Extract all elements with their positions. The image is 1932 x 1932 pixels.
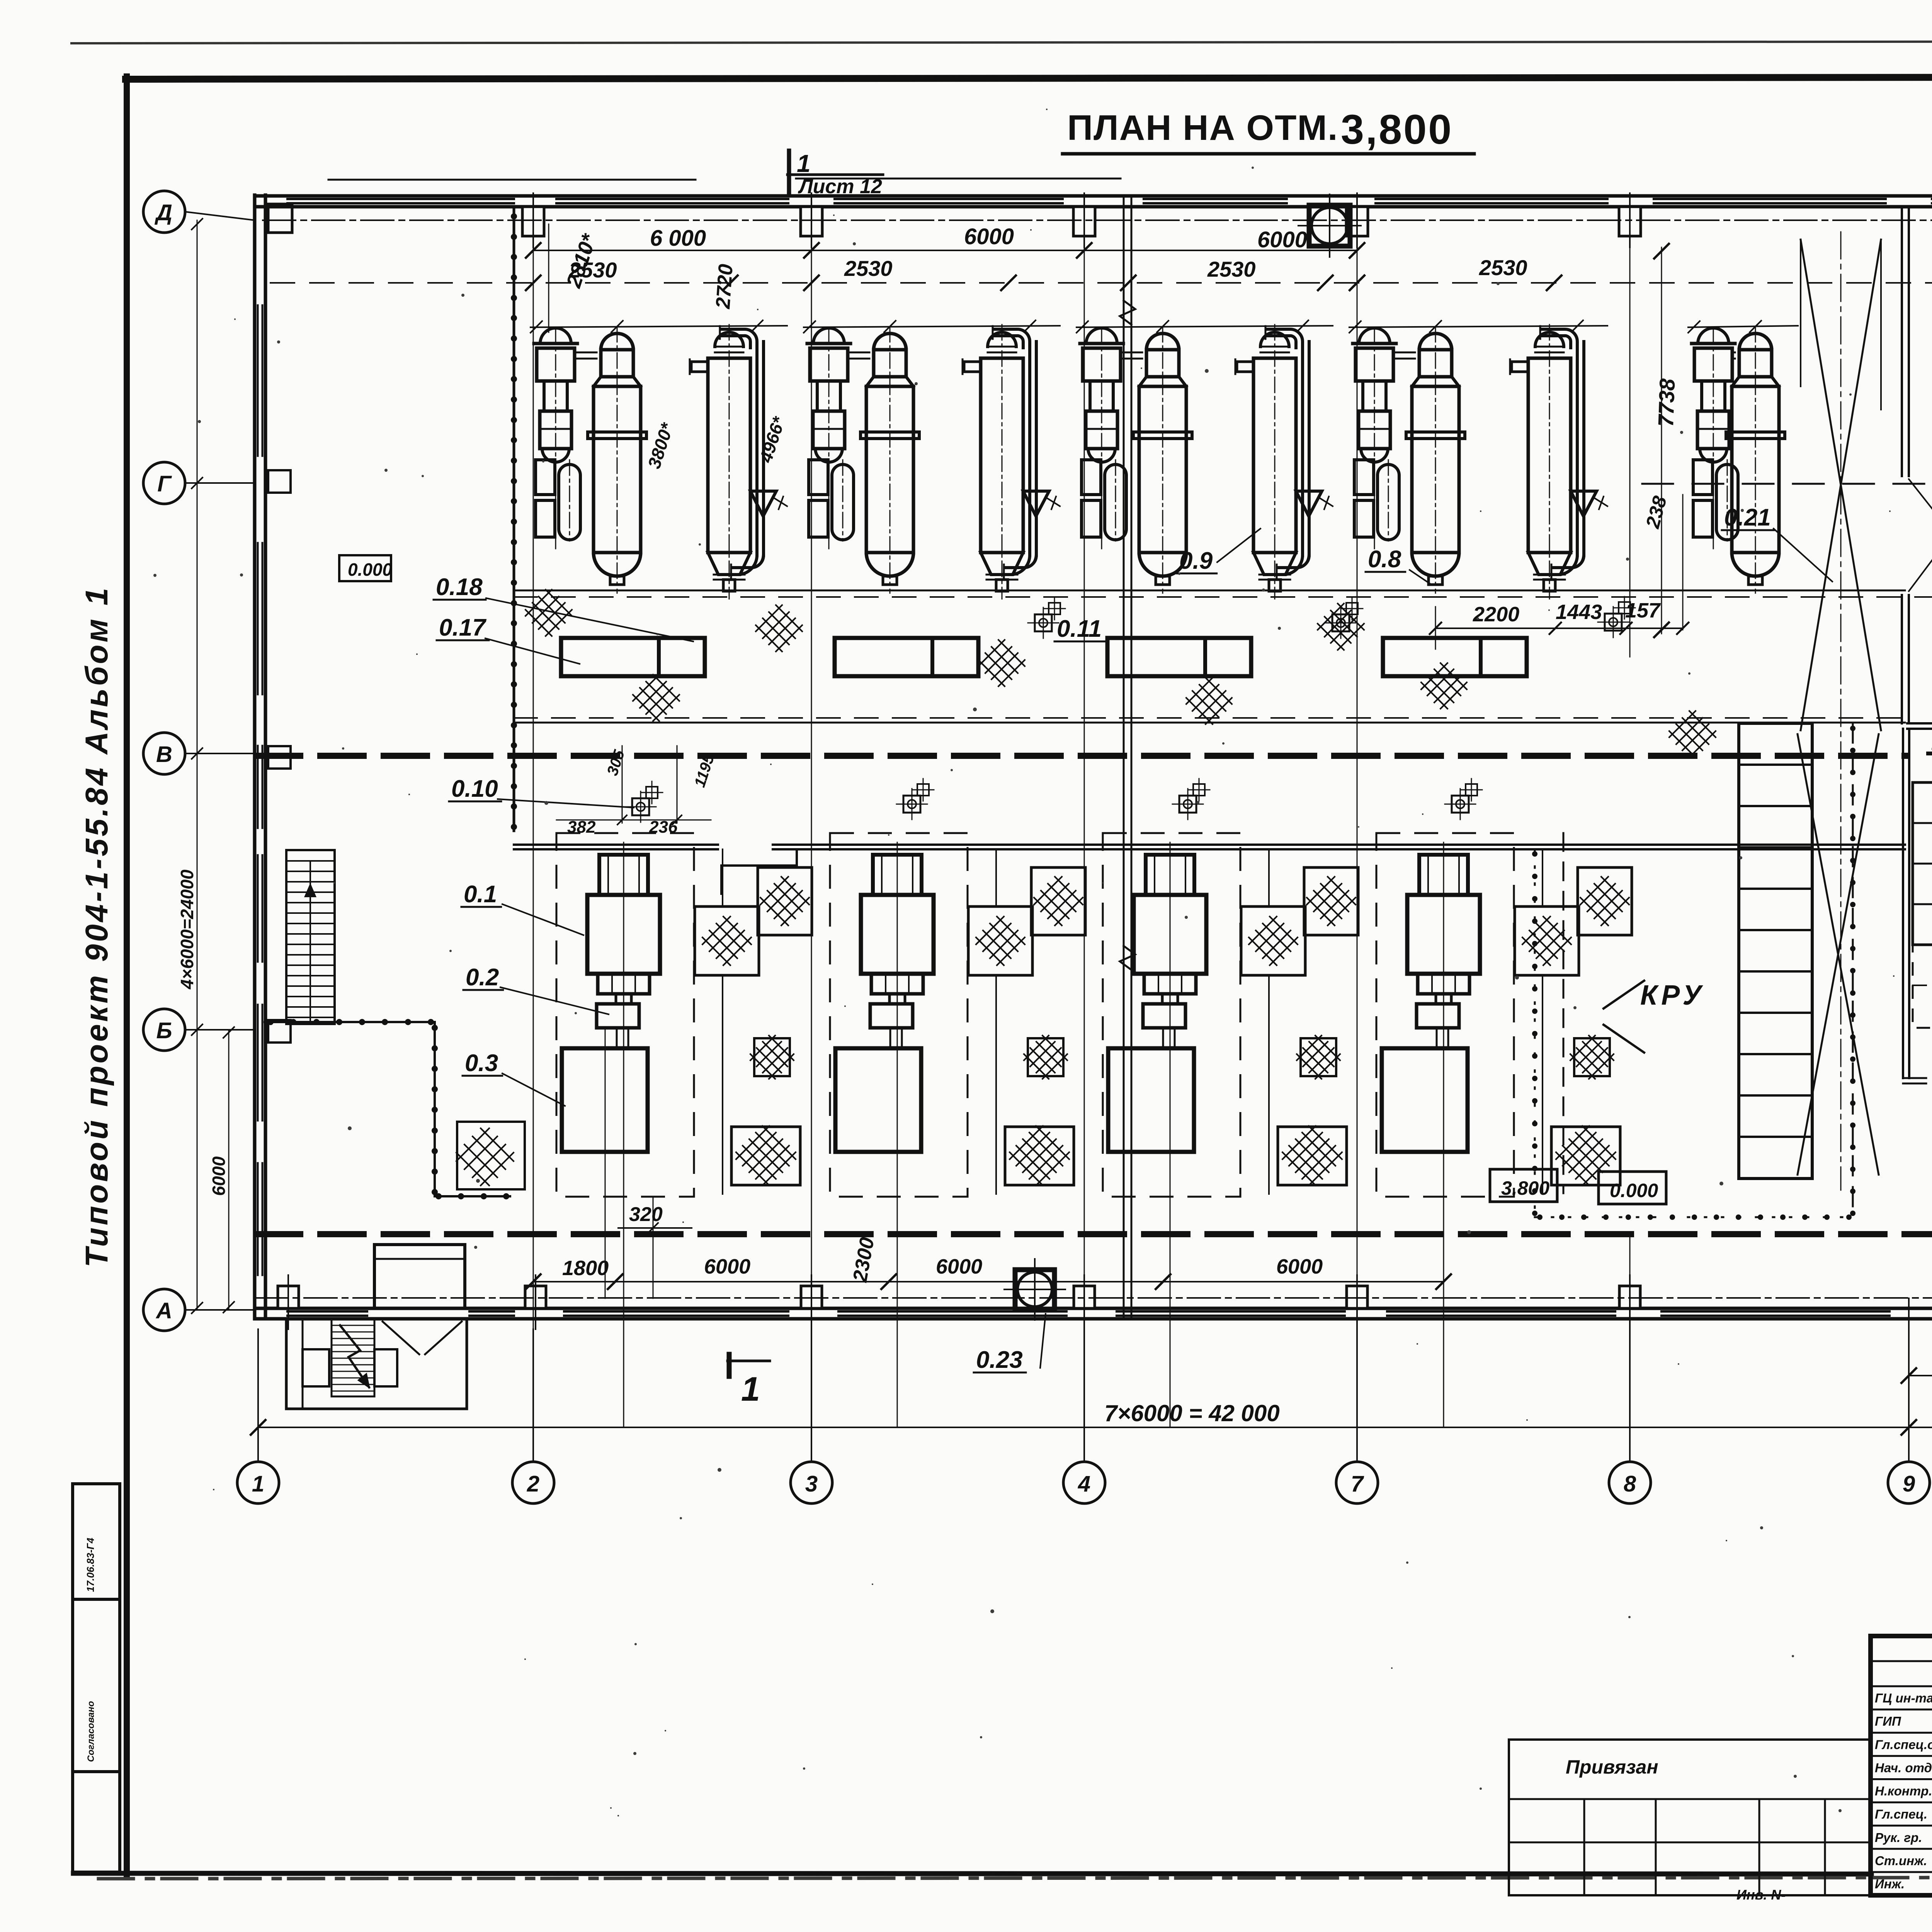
dim 6000 right [1909, 1375, 1932, 1376]
foundation pad 2 [1578, 867, 1632, 935]
svg-text:6000: 6000 [209, 1156, 229, 1196]
КРУ switchgear cabinets [1739, 723, 1812, 1179]
foundation pad 2 [758, 867, 812, 935]
svg-text:Инв. N-: Инв. N- [1736, 1887, 1786, 1903]
axis 3 centerline [811, 239, 812, 1461]
svg-text:Гл.спец.отд: Гл.спец.отд [1875, 1737, 1932, 1752]
left wall windows [257, 305, 259, 456]
bottom wall inner line [255, 1307, 1932, 1310]
vent duct cross brace 0.21 [1801, 240, 1881, 730]
top wall windows [287, 198, 514, 200]
svg-text:2530: 2530 [844, 256, 893, 281]
svg-text:9: 9 [1903, 1471, 1915, 1497]
svg-text:2200: 2200 [1473, 603, 1519, 626]
svg-text:1: 1 [252, 1471, 264, 1497]
svg-text:0.11: 0.11 [1057, 616, 1102, 642]
compressor unit at x1614 [556, 833, 694, 1427]
gallery bottom dashed line [514, 717, 1905, 719]
cabinet column 0.19 [1913, 782, 1932, 945]
svg-text:Н.контр.: Н.контр. [1875, 1784, 1932, 1798]
top wall column stubs [522, 207, 544, 236]
vessel at x2303 [861, 327, 919, 593]
svg-text:6000: 6000 [964, 224, 1014, 249]
workbench 0.17 row [561, 638, 705, 676]
connecting pipe [1732, 352, 1735, 354]
vessel at x1597 [588, 327, 646, 593]
svg-text:0.000: 0.000 [348, 560, 393, 580]
unit1 offset line for 320 dim [605, 1028, 606, 1298]
level mark 0.000 box [1599, 1172, 1666, 1204]
svg-text:3,800: 3,800 [1341, 106, 1453, 153]
dashed partition right of unit 4 [1563, 833, 1565, 1193]
equipment anchor fittings [1035, 614, 1052, 631]
section mark top [787, 151, 791, 195]
svg-text:4: 4 [1078, 1471, 1090, 1497]
axis Д dash-dot line [263, 219, 1932, 221]
column apparatus at x1887 [690, 325, 787, 599]
svg-text:3: 3 [805, 1471, 818, 1497]
entrance vestibule [286, 1319, 467, 1409]
svg-text:1: 1 [797, 150, 811, 177]
bottom wall column stubs [278, 1286, 299, 1308]
foundation pad 3 [1301, 1038, 1336, 1076]
vestibule stairs [332, 1319, 374, 1396]
svg-text:0.9: 0.9 [1179, 548, 1213, 574]
sheet frame bottom [73, 1873, 1871, 1874]
foundation pad 3 [754, 1038, 790, 1076]
svg-text:7×6000 = 42 000: 7×6000 = 42 000 [1104, 1400, 1280, 1426]
service room door leaf [1909, 479, 1932, 516]
svg-text:Типовой проект 904-1-55.84: Типовой проект 904-1-55.84 Альбом 1 [79, 585, 114, 1267]
top wall outer line [255, 194, 1932, 198]
connecting pipe [575, 352, 597, 354]
svg-text:1800: 1800 [562, 1257, 609, 1280]
svg-text:Рук. гр.: Рук. гр. [1875, 1830, 1922, 1845]
svg-text:Б: Б [156, 1018, 172, 1043]
svg-text:ГЦ ин-та: ГЦ ин-та [1875, 1691, 1932, 1705]
heavy dashed crane line y3194 [257, 1231, 1932, 1237]
title block frame [1871, 1636, 1932, 1895]
title block header rows [1871, 1660, 1932, 1662]
canopy line above top wall [328, 179, 696, 181]
foundation pad 2 [1031, 867, 1085, 935]
svg-text:0.2: 0.2 [466, 964, 499, 991]
dryer apparatus at x3557 [1353, 328, 1399, 549]
attachment table left of title block [1509, 1740, 1871, 1895]
svg-text:6000: 6000 [704, 1255, 750, 1278]
svg-text:7738: 7738 [1653, 378, 1679, 427]
axis circles bottom 1-10 [257, 1329, 259, 1462]
inter-unit partition lines [722, 849, 723, 906]
top dashed dim line 2530 row [270, 282, 1932, 284]
left wall inner line [264, 195, 267, 1319]
bottom wall outer line [255, 1317, 1932, 1321]
svg-text:Нач. отд: Нач. отд [1875, 1760, 1932, 1775]
КРУ room dotted wall left [1534, 849, 1536, 1217]
КРУ room dashed wall right [1852, 723, 1854, 1217]
svg-text:Г: Г [157, 471, 172, 497]
paper top edge scan line [71, 41, 1932, 43]
main dim row 7x6000 [258, 1427, 1932, 1428]
КРУ room dotted wall bottom [1535, 1216, 1853, 1218]
compressor unit at x3028 [1103, 833, 1240, 1427]
axis 4 centerline [1084, 239, 1085, 1461]
svg-text:0.23: 0.23 [976, 1347, 1023, 1373]
column apparatus at x2593 [963, 325, 1060, 599]
dryer apparatus at x1438 [534, 328, 580, 549]
left margin stamp boxes [73, 1484, 120, 1599]
svg-text:0.1: 0.1 [464, 881, 497, 908]
equipment top reference dim line [531, 326, 787, 327]
level mark 3.800 box [1490, 1169, 1557, 1202]
floor level mark 0.000 left room [339, 555, 391, 581]
svg-text:Лист 12: Лист 12 [798, 175, 882, 198]
door step jamb [721, 850, 797, 894]
axis А dash-dot line [255, 1297, 1932, 1299]
corner room dotted walls [265, 1021, 435, 1023]
svg-text:0.000: 0.000 [1610, 1180, 1658, 1201]
foundation pad 1 [1241, 906, 1305, 975]
corner room hatched pad [457, 1122, 525, 1189]
foundation pad 4 [1278, 1127, 1347, 1185]
axis circles left А-Д [185, 212, 255, 220]
svg-text:6000: 6000 [936, 1255, 982, 1278]
svg-text:0.18: 0.18 [436, 574, 483, 600]
svg-text:1443: 1443 [1556, 600, 1602, 624]
svg-text:17.06.83-Г4: 17.06.83-Г4 [85, 1537, 96, 1592]
svg-text:Инж.: Инж. [1875, 1877, 1905, 1891]
svg-text:Согласовано: Согласовано [86, 1701, 96, 1762]
title underline [1063, 152, 1474, 156]
tambour room [374, 1245, 465, 1308]
svg-text:320: 320 [629, 1203, 663, 1226]
svg-text:7: 7 [1351, 1471, 1364, 1497]
sheet frame left [124, 77, 130, 1874]
dim row 2200 1443 157 [1435, 628, 1683, 629]
svg-text:6000: 6000 [1276, 1255, 1323, 1278]
fan unit bottom wall [1015, 1270, 1054, 1309]
top dim row 6000 [533, 250, 1357, 251]
sheet frame bottom right under title block [1871, 1893, 1932, 1898]
gallery top solid line [514, 590, 1905, 592]
bottom dim row 1800/6000 [533, 1281, 1444, 1282]
bottom wall windows [287, 1310, 367, 1313]
dryer apparatus at x4434 [1692, 328, 1738, 549]
service room partition wall [1901, 209, 1903, 476]
svg-text:Привязан: Привязан [1566, 1756, 1658, 1778]
svg-text:0.3: 0.3 [465, 1050, 498, 1077]
svg-text:А: А [155, 1298, 172, 1323]
operator room top wall dashed [1907, 722, 1932, 724]
axis 2 centerline [533, 239, 534, 1461]
svg-text:2530: 2530 [1207, 257, 1256, 281]
section mark bottom [727, 1354, 732, 1376]
machine hall top wall [514, 844, 718, 846]
svg-text:Гл.спец.: Гл.спец. [1875, 1807, 1927, 1821]
foundation pad 1 [1515, 906, 1579, 975]
connecting pipe [848, 352, 869, 354]
fold crease bottom [99, 1877, 1932, 1879]
svg-text:2720: 2720 [712, 263, 737, 310]
axis 8 centerline [1629, 239, 1631, 657]
svg-text:6 000: 6 000 [650, 226, 706, 251]
gallery top dashed line [514, 596, 1932, 598]
svg-text:3.800: 3.800 [1501, 1177, 1549, 1199]
compressor unit at x2322 [830, 833, 968, 1427]
foundation pad 1 [695, 906, 759, 975]
column apparatus at x3299 [1235, 325, 1333, 599]
operator room left wall [1902, 729, 1904, 1078]
left wall column stubs [268, 470, 291, 493]
svg-text:ГИП: ГИП [1875, 1714, 1901, 1728]
dryer apparatus at x2851 [1080, 328, 1126, 549]
foundation pad 2 [1304, 867, 1358, 935]
connecting pipe [1393, 352, 1415, 354]
left room stairs [286, 850, 335, 1024]
foundation pad 3 [1028, 1038, 1063, 1076]
svg-text:ПЛАН НА ОТМ.: ПЛАН НА ОТМ. [1067, 108, 1338, 148]
compressor unit at x3736 [1376, 833, 1514, 1427]
dim 4x6000=24000 left rotated [197, 220, 198, 1310]
corridor fittings 0.10 [632, 798, 649, 815]
vestibule arrow [340, 1325, 369, 1387]
column apparatus at x4010 [1510, 325, 1607, 599]
svg-text:Ст.инж.: Ст.инж. [1875, 1854, 1927, 1868]
svg-text:157: 157 [1625, 599, 1661, 622]
svg-text:2530: 2530 [1479, 255, 1527, 280]
svg-text:Д: Д [154, 200, 172, 225]
КРУ door swing [1604, 981, 1644, 1009]
foundation pad 3 [1574, 1038, 1610, 1076]
vessel at x3715 [1406, 327, 1465, 593]
foundation pad 4 [731, 1127, 800, 1185]
svg-text:0.8: 0.8 [1368, 546, 1401, 573]
title block name rows [1871, 1709, 1932, 1711]
axis 7 centerline [1357, 216, 1358, 1461]
axis Г dashed segment right [1642, 483, 1932, 485]
fan unit top wall [1309, 205, 1350, 246]
operator room bottom wall dashed [1903, 1077, 1932, 1079]
svg-text:КРУ: КРУ [1640, 980, 1705, 1011]
left wall outer line [253, 195, 257, 1319]
svg-text:6000: 6000 [1257, 227, 1307, 252]
gallery bottom solid line [514, 722, 1905, 724]
vessel at x3009 [1133, 327, 1192, 593]
sheet frame top [126, 77, 1932, 79]
axis В heavy dashed line [257, 753, 1905, 759]
sheet splice break line [1123, 195, 1125, 1319]
dryer apparatus at x2145 [807, 328, 854, 549]
partition wall with dots x1330 [513, 208, 515, 831]
svg-text:1: 1 [741, 1370, 760, 1408]
connecting pipe [1121, 352, 1142, 354]
svg-text:0.21: 0.21 [1724, 504, 1771, 531]
top wall inner line [255, 205, 1932, 209]
dim 6000 left rotated [228, 1030, 230, 1310]
foundation pad 4 [1005, 1127, 1074, 1185]
svg-text:4×6000=24000: 4×6000=24000 [177, 869, 197, 990]
svg-text:0.10: 0.10 [451, 776, 498, 802]
foundation pad 4 [1551, 1127, 1620, 1185]
vessel at x4543 [1726, 327, 1785, 593]
plaster hatch marks gallery [526, 590, 572, 636]
svg-text:8: 8 [1624, 1471, 1636, 1497]
svg-text:0.17: 0.17 [439, 614, 486, 641]
scan speckles [1178, 573, 1180, 575]
svg-text:В: В [156, 742, 172, 767]
tambour funnel lines [383, 1321, 419, 1354]
foundation pad 1 [968, 906, 1032, 975]
svg-text:2: 2 [527, 1471, 539, 1497]
